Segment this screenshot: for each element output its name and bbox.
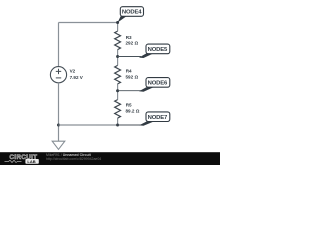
node label NODE4 bbox=[118, 7, 144, 23]
node dot N4 bbox=[116, 21, 119, 24]
svg-text:R4: R4 bbox=[126, 69, 132, 74]
ground bbox=[52, 141, 65, 149]
node label NODE7 bbox=[118, 112, 170, 126]
node junction dot (left bottom) bbox=[57, 124, 60, 127]
svg-text:http://circuitlab.com/c/829994: http://circuitlab.com/c/8299942ae04 bbox=[46, 157, 101, 161]
resistor R5 bbox=[115, 100, 140, 119]
node dot N5 bbox=[116, 55, 119, 58]
wire: top horizontal bbox=[59, 22, 118, 24]
svg-text:NODE7: NODE7 bbox=[148, 115, 168, 121]
svg-text:R5: R5 bbox=[126, 103, 132, 108]
node label NODE6 bbox=[118, 78, 170, 92]
voltage source V2 bbox=[50, 67, 83, 83]
svg-text:292 Ω: 292 Ω bbox=[126, 40, 139, 45]
resistor R3 bbox=[115, 31, 139, 50]
node label NODE5 bbox=[118, 44, 170, 58]
footer credit text bbox=[46, 153, 101, 161]
svg-text:NODE6: NODE6 bbox=[148, 81, 168, 87]
node dot N6 bbox=[116, 89, 119, 92]
svg-text:89.2 Ω: 89.2 Ω bbox=[126, 109, 140, 114]
wire: bottom horizontal bbox=[59, 124, 118, 126]
wire: right vertical lead segments bbox=[117, 23, 119, 126]
wire: left vertical upper (to V2 top) bbox=[58, 23, 60, 67]
wire: left vertical lower (V2 bottom to ground) bbox=[58, 83, 60, 141]
svg-text:V2: V2 bbox=[70, 69, 76, 74]
CircuitLab logo bbox=[5, 154, 39, 164]
node dot N7 bbox=[116, 124, 119, 127]
svg-text:NODE5: NODE5 bbox=[148, 47, 168, 53]
svg-text:592 Ω: 592 Ω bbox=[126, 75, 139, 80]
svg-text:7.92 V: 7.92 V bbox=[70, 75, 84, 80]
footer bar bbox=[0, 152, 220, 165]
svg-text:LAB: LAB bbox=[27, 159, 35, 164]
svg-text:R3: R3 bbox=[126, 35, 132, 40]
svg-text:NODE4: NODE4 bbox=[122, 10, 142, 16]
resistor R4 bbox=[115, 65, 139, 84]
